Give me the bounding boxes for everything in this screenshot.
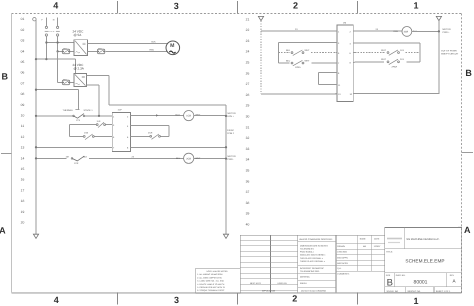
relay coil 3CR	[402, 27, 412, 37]
left power rail	[35, 20, 37, 234]
svg-text:20: 20	[21, 221, 25, 225]
wire AC to PSU1 pin1	[46, 42, 74, 44]
rung 22 right : connector to coil 3CR	[355, 30, 403, 32]
power supply U2 24VDC 2.3A	[73, 63, 87, 87]
wire ground bus to thermal switch	[36, 90, 79, 110]
svg-text:1CR: 1CR	[74, 162, 79, 165]
svg-text:WEIGHT: NA: WEIGHT: NA	[408, 290, 421, 293]
svg-text:21: 21	[246, 17, 250, 21]
right label circuit note	[441, 49, 459, 55]
svg-text:SCALE: NA: SCALE: NA	[387, 290, 399, 293]
svg-text:01: 01	[21, 17, 25, 21]
svg-text:TOLERANCES:: TOLERANCES:	[300, 248, 315, 251]
contact 1CR aux	[148, 132, 160, 140]
svg-text:35: 35	[246, 169, 250, 173]
wire 1CR to right rail	[194, 115, 226, 117]
svg-text:A: A	[464, 225, 471, 235]
svg-text:1CR: 1CR	[186, 115, 191, 118]
junction	[225, 146, 227, 148]
left rail	[260, 21, 262, 94]
svg-text:TITLE:: TITLE:	[386, 250, 393, 253]
bottom rung 28	[261, 93, 439, 95]
svg-text:24VDC: 24VDC	[227, 129, 234, 132]
title box	[385, 228, 462, 293]
svg-text:B: B	[465, 68, 472, 78]
svg-text:32: 32	[246, 136, 250, 140]
right rail label MOTOR PWR	[228, 155, 237, 161]
svg-text:MOTOR: MOTOR	[228, 112, 237, 115]
junction	[98, 115, 100, 117]
svg-text:RED: RED	[150, 48, 155, 51]
svg-text:19: 19	[21, 210, 25, 214]
svg-text:17: 17	[21, 188, 25, 192]
wire PSU2 + output to right rail	[86, 75, 226, 105]
svg-text:@ 2.3A: @ 2.3A	[74, 67, 85, 71]
wire L2 drop	[57, 18, 59, 52]
junction	[35, 115, 37, 117]
svg-text:BLU: BLU	[176, 157, 181, 160]
svg-text:14: 14	[21, 156, 25, 160]
svg-text:22: 22	[246, 28, 250, 32]
svg-text:1. ALL WIRING 18 AWG 600V: 1. ALL WIRING 18 AWG 600V	[197, 273, 223, 276]
svg-text:FINISH: FINISH	[300, 282, 307, 285]
circuit breaker CB1 pole 2	[56, 26, 60, 36]
svg-text:TOLERANCING PER:: TOLERANCING PER:	[300, 270, 320, 273]
svg-text:TWO PLACE DECIMAL ±: TWO PLACE DECIMAL ±	[300, 257, 324, 260]
fuse 2FU	[97, 48, 104, 54]
breaker tie bar	[50, 30, 56, 32]
svg-text:DO NOT SCALE DRAWING: DO NOT SCALE DRAWING	[301, 290, 326, 293]
junction	[438, 30, 440, 32]
svg-text:07: 07	[21, 81, 25, 85]
svg-text:80001: 80001	[414, 279, 428, 285]
contact loop left of module	[70, 125, 113, 137]
relay coil 2CR	[184, 153, 194, 163]
svg-text:12: 12	[21, 135, 25, 139]
svg-text:B: B	[387, 277, 393, 288]
svg-text:28: 28	[246, 93, 250, 97]
svg-text:Q.A.: Q.A.	[337, 267, 341, 270]
svg-text:12/3/07: 12/3/07	[374, 245, 382, 248]
right rail terminal arrow	[436, 16, 441, 20]
svg-text:COM 2: COM 2	[227, 132, 235, 135]
svg-text:WHT: WHT	[305, 59, 311, 62]
svg-text:4: 4	[53, 0, 58, 10]
svg-text:MOTOR: MOTOR	[228, 155, 237, 158]
svg-text:BLK: BLK	[286, 49, 291, 52]
zone labels bottom	[54, 294, 419, 306]
svg-text:STAGE 1: STAGE 1	[84, 109, 94, 112]
left rail terminal arrow	[258, 16, 263, 20]
svg-text:FRACTIONAL±: FRACTIONAL±	[300, 251, 315, 254]
svg-text:PWR +: PWR +	[443, 31, 451, 34]
svg-text:1PBA: 1PBA	[295, 66, 301, 69]
svg-text:08: 08	[21, 92, 25, 96]
junction	[56, 41, 58, 43]
svg-text:6. TORQUE TERMINALS SPEC: 6. TORQUE TERMINALS SPEC	[197, 289, 225, 292]
svg-text:SWEPT CIRCUIT: SWEPT CIRCUIT	[441, 53, 459, 56]
svg-text:2: 2	[292, 294, 297, 304]
svg-text:MFG APPR.: MFG APPR.	[337, 262, 348, 265]
ladder line numbers 01-20	[21, 17, 25, 224]
svg-text:04: 04	[21, 49, 25, 53]
right rail bottom terminal arrow	[223, 234, 228, 238]
svg-text:APPLICATION: APPLICATION	[262, 290, 276, 293]
svg-text:SHEET 1 OF 1: SHEET 1 OF 1	[436, 290, 451, 293]
svg-text:1: 1	[413, 0, 418, 10]
ground terminal circle at top of left rail	[33, 18, 36, 21]
svg-text:09: 09	[21, 103, 25, 107]
svg-text:10: 10	[21, 114, 25, 118]
junction	[56, 50, 58, 52]
wire PSU1 + output BLK to motor	[87, 43, 167, 45]
svg-text:27: 27	[246, 82, 250, 86]
svg-text:16: 16	[21, 178, 25, 182]
svg-text:THERMAL: THERMAL	[63, 109, 74, 112]
dashed sense wire	[355, 52, 421, 54]
switch 1SS	[83, 132, 94, 140]
svg-text:30: 30	[246, 115, 250, 119]
svg-text:1SS: 1SS	[84, 132, 89, 135]
svg-text:3: 3	[174, 1, 179, 11]
svg-text:@ 5A: @ 5A	[74, 33, 83, 37]
contact 1PB	[286, 59, 310, 69]
right power rail of ladder	[225, 105, 227, 234]
svg-text:BLK: BLK	[152, 40, 157, 43]
rung 13 : module to rails	[36, 146, 226, 148]
wire PSU1 - output to 2FU	[87, 50, 97, 52]
svg-text:B: B	[2, 71, 9, 81]
svg-text:23: 23	[246, 39, 250, 43]
svg-text:06: 06	[21, 71, 25, 75]
wire arrow marker	[156, 114, 159, 116]
svg-text:MATERIAL: MATERIAL	[300, 275, 311, 278]
left rail bottom terminal arrow	[33, 234, 38, 238]
contact 1PX	[286, 49, 310, 55]
svg-text:34: 34	[246, 158, 250, 162]
svg-text:MOTOR: MOTOR	[443, 28, 452, 31]
svg-text:BLU: BLU	[286, 59, 291, 62]
svg-text:RED: RED	[394, 30, 399, 33]
svg-text:4: 4	[54, 295, 59, 305]
right rail label MOTOR DRV	[228, 112, 237, 118]
svg-text:M: M	[170, 43, 174, 49]
svg-text:40: 40	[246, 223, 250, 227]
svg-text:NAME: NAME	[360, 238, 366, 241]
svg-text:37: 37	[246, 190, 250, 194]
contact loop right of module	[132, 126, 169, 137]
svg-text:2LS: 2LS	[400, 58, 404, 61]
zone labels sides	[0, 68, 472, 235]
svg-text:3. LABEL WIRE NO. - EA. END: 3. LABEL WIRE NO. - EA. END	[197, 280, 224, 283]
svg-text:THREE PLACE DECIMAL ±: THREE PLACE DECIMAL ±	[300, 260, 326, 263]
contact 1LS	[96, 120, 105, 128]
contact 2PB	[381, 58, 404, 68]
svg-text:2CR: 2CR	[148, 132, 153, 135]
svg-text:A: A	[0, 226, 6, 236]
svg-text:DATE: DATE	[374, 238, 380, 241]
svg-text:1M: 1M	[66, 155, 69, 158]
svg-text:2: 2	[293, 1, 298, 11]
svg-text:1LS: 1LS	[400, 49, 404, 52]
svg-text:INTERPRET GEOMETRIC: INTERPRET GEOMETRIC	[300, 267, 325, 270]
fuse 1FU	[62, 48, 69, 54]
rung 14 : contact and coil 2CR	[36, 157, 226, 159]
svg-text:CHECKED: CHECKED	[337, 251, 347, 254]
rung 22 left : rail to connector	[261, 30, 337, 32]
thermal switch TS1	[63, 109, 94, 122]
ladder line numbers 21-40	[246, 17, 250, 226]
right rail label 24VDC COM	[227, 129, 235, 135]
tolerance block	[298, 235, 336, 293]
svg-text:1CP: 1CP	[118, 109, 123, 112]
junction	[35, 89, 37, 91]
svg-text:BLU: BLU	[176, 114, 181, 117]
svg-text:1: 1	[413, 296, 418, 306]
svg-text:3: 3	[174, 295, 179, 305]
svg-text:PWR -: PWR -	[228, 158, 235, 161]
wire PSU2 - output down	[86, 85, 99, 116]
svg-text:2PBA: 2PBA	[392, 66, 398, 69]
svg-text:SCHEM.ELE.EMP: SCHEM.ELE.EMP	[405, 259, 444, 264]
svg-text:OUT OF POWR: OUT OF POWR	[441, 49, 457, 52]
svg-text:USED ON: USED ON	[277, 282, 287, 285]
application table	[240, 235, 385, 293]
power supply U1 24VDC 5A	[73, 30, 88, 56]
svg-text:DWG. NO.: DWG. NO.	[396, 274, 406, 277]
contact 2PX	[381, 49, 404, 55]
svg-text:29: 29	[246, 104, 250, 108]
connector module 1M	[336, 21, 355, 101]
svg-text:COMMENTS:: COMMENTS:	[337, 273, 350, 276]
svg-text:1TS: 1TS	[76, 119, 81, 122]
zone labels top	[53, 0, 418, 11]
svg-text:15: 15	[21, 167, 25, 171]
svg-text:WHT: WHT	[381, 49, 387, 52]
fuse 3FU	[62, 79, 69, 85]
svg-text:4. DEVICE LABELS TO MATCH: 4. DEVICE LABELS TO MATCH	[197, 283, 225, 286]
junction	[225, 115, 227, 117]
svg-text:13: 13	[21, 146, 25, 150]
svg-text:38: 38	[246, 201, 250, 205]
junction	[35, 146, 37, 148]
rung 10 : thermal switch to relay module	[36, 115, 112, 117]
svg-text:1LS: 1LS	[97, 120, 101, 123]
relay coil 1CR	[184, 111, 194, 121]
junction	[35, 58, 37, 60]
svg-text:39: 39	[246, 212, 250, 216]
svg-text:5. GROUND PER NEC NFPA 79: 5. GROUND PER NEC NFPA 79	[197, 286, 224, 289]
svg-text:31: 31	[246, 125, 250, 129]
svg-text:DIMENSIONS ARE IN INCHES: DIMENSIONS ARE IN INCHES	[300, 244, 329, 247]
wire coil to right rail	[412, 30, 439, 32]
wire RED to motor	[105, 50, 167, 52]
svg-text:SG MACHINE DESIGN LLC.: SG MACHINE DESIGN LLC.	[406, 238, 440, 241]
circuit breaker CB1 pole 1	[45, 26, 49, 36]
svg-text:2. ALL WIRE COPPER MTW: 2. ALL WIRE COPPER MTW	[197, 276, 222, 279]
svg-text:24: 24	[246, 50, 250, 54]
wire L2 drop to 3FU	[58, 51, 74, 82]
junction	[225, 157, 227, 159]
junction	[35, 157, 37, 159]
right rail	[438, 21, 440, 94]
contact 1CR	[66, 155, 88, 165]
svg-text:NOTE: UNLESS NOTED: NOTE: UNLESS NOTED	[206, 270, 228, 273]
svg-text:WHT: WHT	[305, 49, 311, 52]
svg-text:DRV +: DRV +	[228, 115, 235, 118]
svg-text:DRAWN: DRAWN	[337, 245, 345, 248]
svg-text:NEXT ASSY: NEXT ASSY	[250, 282, 262, 285]
wire L1 drop	[45, 18, 47, 60]
svg-text:26: 26	[246, 71, 250, 75]
svg-text:03: 03	[21, 39, 25, 43]
svg-text:ENG APPR.: ENG APPR.	[337, 256, 348, 259]
signature table	[336, 235, 385, 275]
wire 1FU feed	[58, 50, 74, 52]
svg-text:2CR: 2CR	[186, 157, 191, 160]
jumper U link	[319, 73, 337, 85]
motor M1	[166, 41, 180, 55]
svg-text:1M: 1M	[343, 21, 346, 24]
svg-text:36: 36	[246, 179, 250, 183]
svg-text:WHT: WHT	[195, 157, 201, 160]
wire rail to PSU2 ground	[36, 59, 76, 74]
junction	[45, 41, 47, 43]
right label MOTOR PWR	[443, 28, 452, 34]
svg-text:3CR: 3CR	[404, 31, 409, 34]
svg-text:UNLESS OTHERWISE SPECIFIED:: UNLESS OTHERWISE SPECIFIED:	[299, 238, 333, 241]
svg-text:25: 25	[246, 61, 250, 65]
svg-text:REV: REV	[450, 274, 455, 277]
svg-text:05: 05	[21, 60, 25, 64]
svg-text:33: 33	[246, 147, 250, 151]
svg-text:18: 18	[21, 199, 25, 203]
svg-text:02: 02	[21, 28, 25, 32]
sensor bracket left	[278, 42, 337, 63]
svg-text:WHT: WHT	[381, 58, 387, 61]
sensor bracket right	[355, 43, 421, 62]
junction	[45, 58, 47, 60]
svg-text:ANGULAR: MACH± BEND ±: ANGULAR: MACH± BEND ±	[300, 254, 326, 257]
svg-text:11: 11	[21, 124, 25, 128]
dashed sense wire	[278, 52, 337, 54]
rung to relay coil 1CR	[132, 114, 184, 116]
relay module 1CP	[111, 109, 132, 152]
